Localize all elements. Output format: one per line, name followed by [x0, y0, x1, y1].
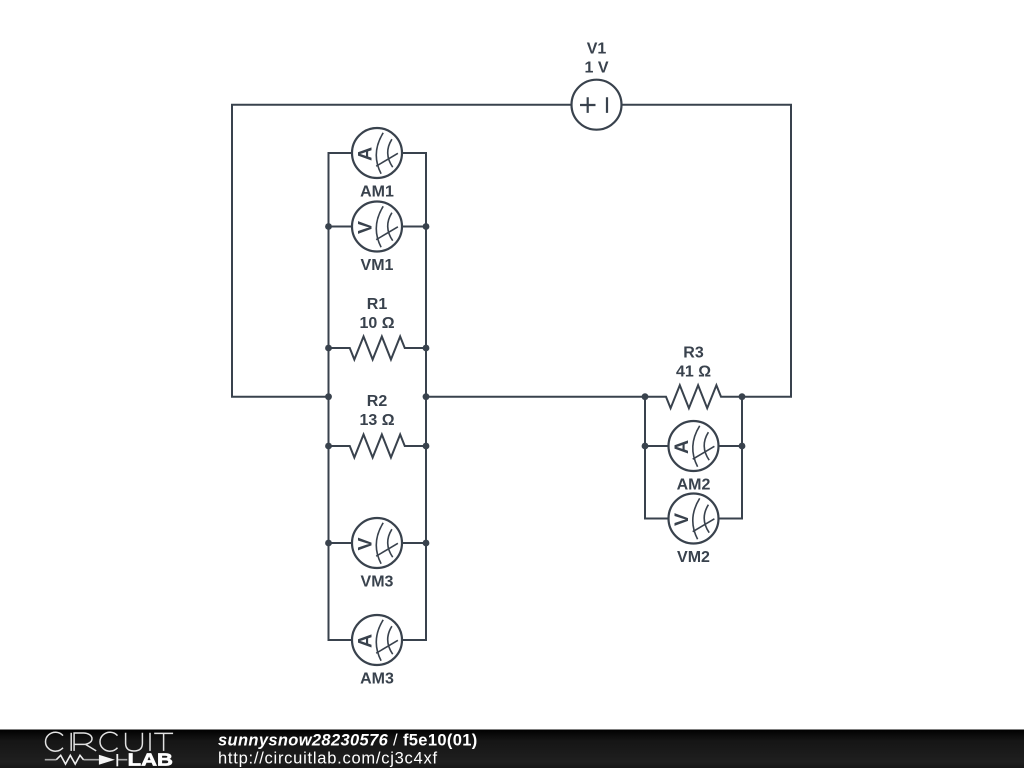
svg-text:AM1: AM1	[360, 184, 394, 201]
svg-text:13 Ω: 13 Ω	[359, 412, 394, 429]
svg-text:sunnysnow28230576 / f5e10(01): sunnysnow28230576 / f5e10(01)	[218, 732, 478, 750]
svg-text:41 Ω: 41 Ω	[676, 363, 711, 380]
svg-text:VM1: VM1	[361, 257, 394, 274]
svg-text:AM3: AM3	[360, 671, 394, 688]
svg-text:A: A	[354, 634, 376, 648]
svg-text:1 V: 1 V	[584, 60, 608, 77]
svg-text:V: V	[354, 537, 376, 550]
svg-text:A: A	[671, 440, 693, 454]
svg-text:http://circuitlab.com/cj3c4xf: http://circuitlab.com/cj3c4xf	[218, 750, 438, 768]
svg-text:R3: R3	[683, 345, 704, 362]
svg-text:V: V	[354, 221, 376, 234]
svg-text:V1: V1	[587, 41, 607, 58]
svg-text:VM3: VM3	[361, 574, 394, 591]
svg-text:10 Ω: 10 Ω	[359, 315, 394, 332]
svg-text:AM2: AM2	[677, 477, 711, 494]
svg-text:V: V	[671, 513, 693, 526]
svg-text:A: A	[354, 147, 376, 161]
svg-text:LAB: LAB	[128, 750, 173, 768]
svg-text:VM2: VM2	[677, 549, 710, 566]
svg-text:R2: R2	[367, 393, 388, 410]
svg-text:R1: R1	[367, 296, 388, 313]
